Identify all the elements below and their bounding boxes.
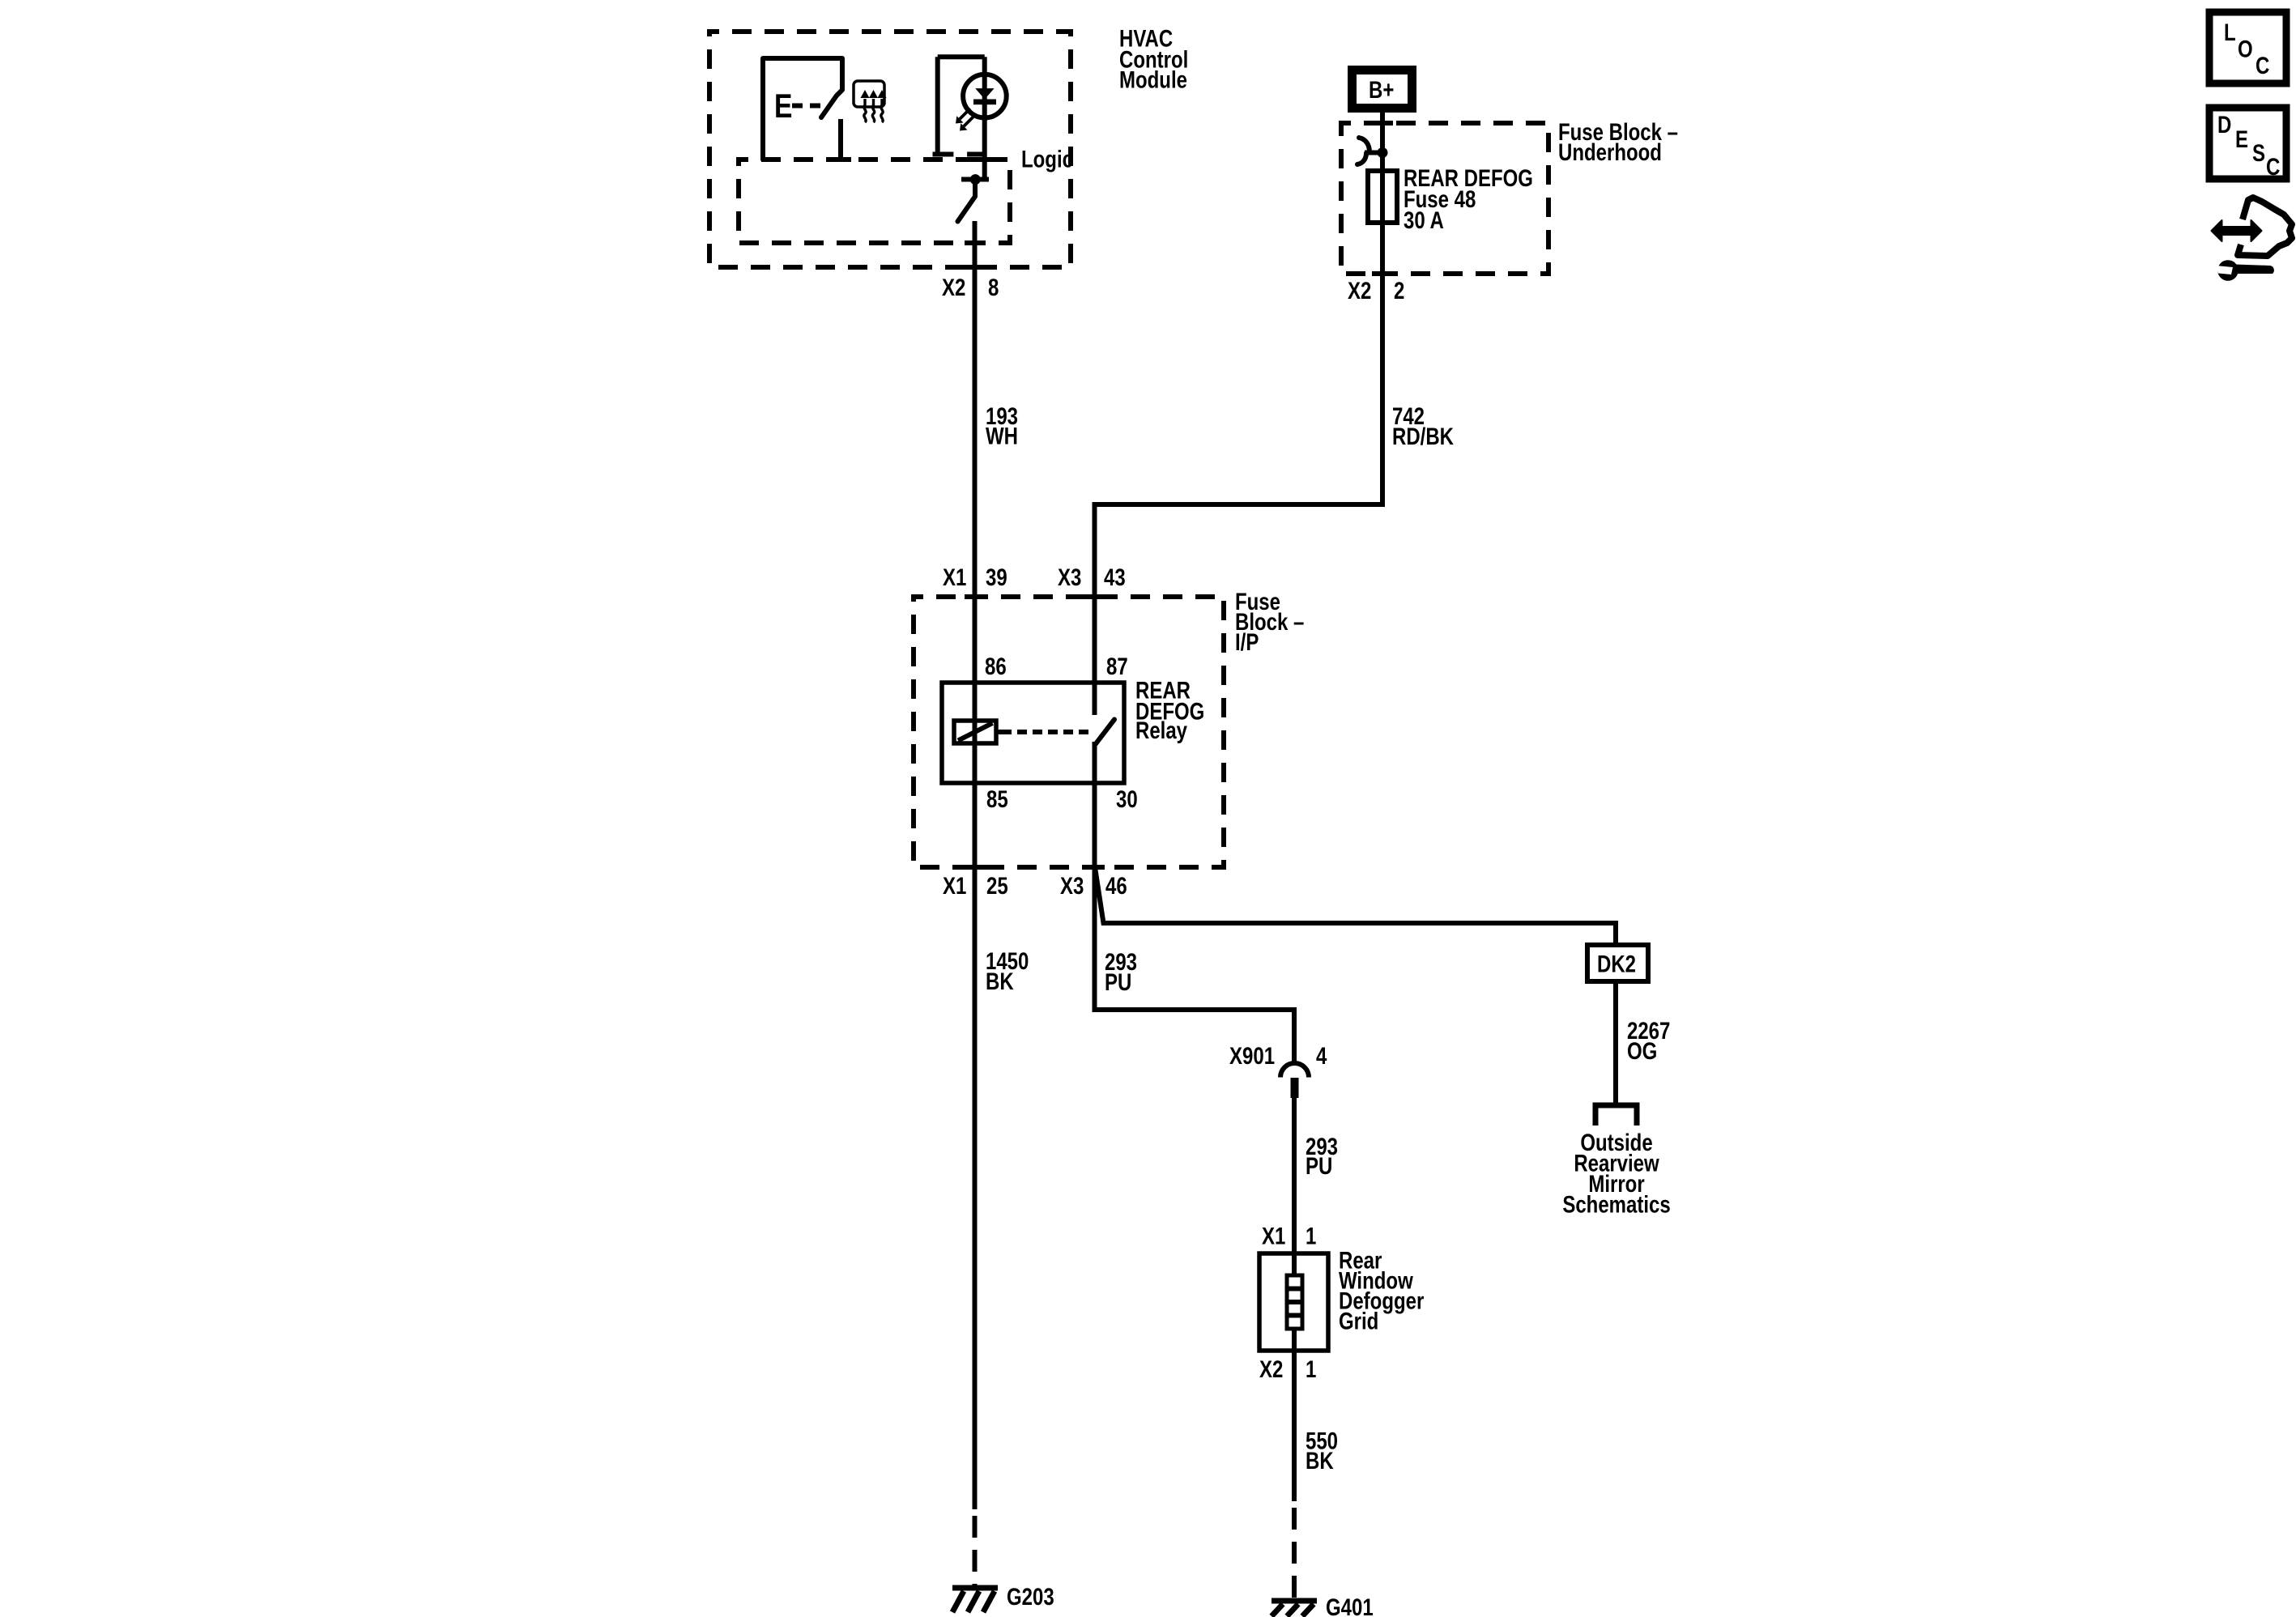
svg-text:X1: X1: [1262, 1222, 1285, 1249]
svg-text:E: E: [774, 88, 792, 126]
svg-text:X2: X2: [1259, 1355, 1283, 1382]
svg-text:30 A: 30 A: [1404, 206, 1444, 233]
svg-text:Schematics: Schematics: [1562, 1190, 1670, 1218]
svg-text:Logic: Logic: [1021, 145, 1073, 172]
svg-text:X1: X1: [943, 563, 966, 590]
svg-text:Module: Module: [1119, 66, 1187, 93]
svg-text:4: 4: [1316, 1041, 1327, 1069]
svg-text:85: 85: [986, 785, 1008, 812]
svg-text:E: E: [2235, 125, 2248, 152]
svg-text:X3: X3: [1058, 563, 1081, 590]
svg-text:OG: OG: [1627, 1036, 1657, 1064]
svg-text:8: 8: [988, 273, 999, 300]
svg-text:DK2: DK2: [1597, 950, 1636, 977]
svg-text:25: 25: [986, 871, 1008, 899]
svg-text:43: 43: [1104, 563, 1126, 590]
svg-text:D: D: [2217, 110, 2231, 138]
svg-text:RD/BK: RD/BK: [1392, 422, 1454, 449]
svg-text:C: C: [2256, 51, 2269, 79]
svg-text:Underhood: Underhood: [1558, 138, 1662, 165]
svg-text:86: 86: [985, 652, 1007, 679]
svg-text:G401: G401: [1326, 1593, 1374, 1617]
svg-text:X901: X901: [1229, 1041, 1275, 1069]
svg-text:X2: X2: [1348, 276, 1371, 304]
svg-text:46: 46: [1105, 871, 1127, 899]
svg-text:X1: X1: [943, 871, 966, 899]
svg-text:Grid: Grid: [1339, 1307, 1378, 1334]
svg-text:L: L: [2224, 18, 2236, 45]
svg-text:39: 39: [986, 563, 1007, 590]
svg-text:O: O: [2238, 35, 2253, 62]
svg-text:1: 1: [1306, 1222, 1316, 1249]
svg-text:BK: BK: [986, 967, 1014, 994]
svg-text:B+: B+: [1369, 75, 1394, 103]
svg-text:PU: PU: [1105, 968, 1131, 995]
svg-text:C: C: [2266, 152, 2280, 180]
svg-text:X2: X2: [942, 273, 965, 300]
svg-text:G203: G203: [1007, 1582, 1054, 1610]
svg-text:PU: PU: [1306, 1151, 1332, 1179]
svg-text:2: 2: [1394, 276, 1404, 304]
svg-text:BK: BK: [1306, 1446, 1334, 1474]
svg-text:S: S: [2252, 138, 2265, 166]
svg-text:1: 1: [1306, 1355, 1316, 1382]
svg-text:X3: X3: [1060, 871, 1084, 899]
svg-text:30: 30: [1116, 785, 1138, 812]
svg-text:87: 87: [1106, 652, 1128, 679]
svg-text:I/P: I/P: [1235, 628, 1259, 655]
svg-text:WH: WH: [986, 422, 1018, 449]
svg-text:Relay: Relay: [1135, 716, 1187, 743]
